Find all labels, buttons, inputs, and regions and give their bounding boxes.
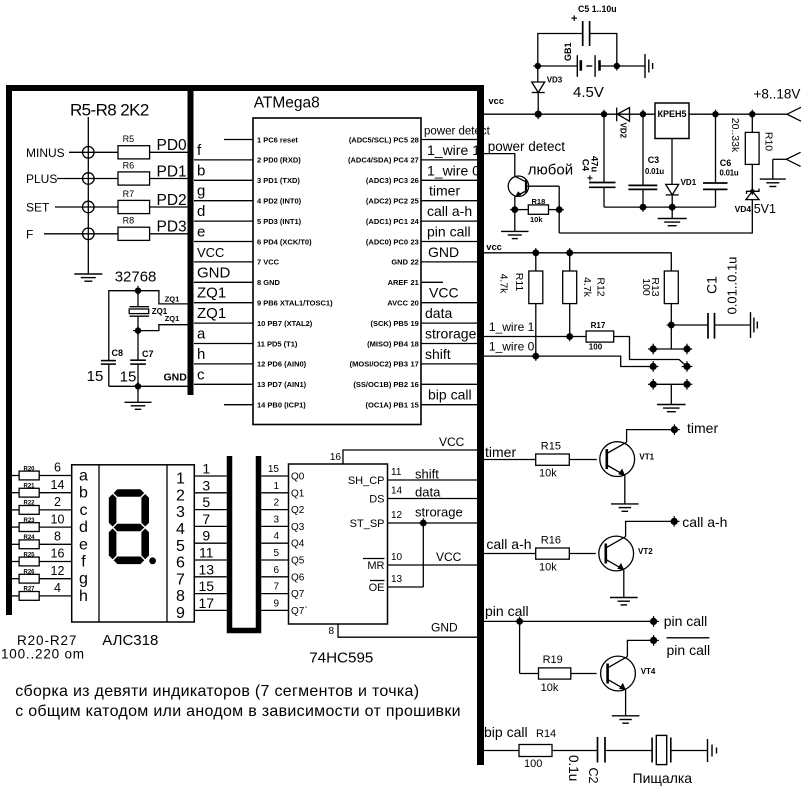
svg-text:(ADC2) PC2: (ADC2) PC2 (366, 197, 408, 206)
svg-text:4: 4 (273, 531, 279, 542)
crystal ZQ1 (137, 291, 139, 307)
svg-text:data: data (415, 485, 441, 500)
svg-text:h: h (79, 588, 88, 605)
svg-text:1 PC6 reset: 1 PC6 reset (257, 135, 298, 144)
svg-text:10k: 10k (530, 215, 543, 224)
svg-text:Q7`: Q7` (291, 605, 308, 617)
node R10 junction (748, 110, 757, 119)
svg-text:100..220 om: 100..220 om (1, 647, 85, 662)
svg-text:pin call: pin call (485, 603, 529, 619)
wire junction down to R19 (519, 621, 521, 673)
wire bus right vertical (MCU bus) (477, 85, 484, 765)
svg-text:8 GND: 8 GND (257, 278, 281, 287)
svg-text:(ADC3) PC3: (ADC3) PC3 (366, 176, 408, 185)
wire VT2 emitter to ground (623, 570, 625, 598)
svg-text:timer: timer (485, 444, 516, 460)
svg-text:15: 15 (87, 368, 104, 385)
node pin call junction (515, 617, 525, 627)
7-segment indicator ALS318 body (72, 465, 195, 622)
svg-text:32768: 32768 (115, 268, 157, 285)
svg-text:Q6: Q6 (291, 572, 305, 583)
svg-text:Q2: Q2 (291, 505, 305, 516)
svg-text:1: 1 (202, 461, 210, 477)
svg-text:0.01u: 0.01u (720, 169, 739, 178)
svg-text:1_wire 0: 1_wire 0 (489, 340, 535, 354)
svg-text:6: 6 (273, 565, 279, 576)
svg-text:8: 8 (176, 588, 185, 605)
svg-text:VT4: VT4 (641, 667, 656, 676)
svg-text:VT1: VT1 (639, 453, 654, 462)
svg-text:100: 100 (524, 758, 542, 770)
wire power ground rail (604, 206, 716, 208)
svg-text:a: a (79, 468, 88, 485)
svg-text:d: d (79, 519, 88, 536)
svg-text:C6: C6 (720, 158, 732, 168)
svg-text:b: b (79, 485, 88, 502)
svg-text:0.01..0.1u: 0.01..0.1u (725, 257, 740, 315)
svg-text:22: 22 (411, 258, 419, 267)
wire 1_wire 1 (484, 336, 586, 338)
svg-text:любой: любой (528, 162, 573, 179)
svg-text:1_wire 1: 1_wire 1 (427, 142, 480, 158)
node C4 junction (599, 110, 608, 119)
svg-text:R10: R10 (763, 132, 775, 151)
svg-text:24: 24 (411, 217, 420, 226)
svg-text:ZQ1: ZQ1 (165, 294, 180, 303)
connector input return (773, 158, 787, 160)
wire crystal left branch to C8 (109, 291, 138, 361)
ground crystal (137, 386, 139, 402)
svg-text:13: 13 (391, 574, 403, 585)
svg-text:GND: GND (164, 371, 188, 383)
ground buzzer (708, 739, 717, 762)
node battery right junction (612, 61, 621, 70)
svg-text:strorage: strorage (425, 326, 477, 342)
svg-text:(ADC4/SDA) PC4: (ADC4/SDA) PC4 (348, 156, 409, 165)
svg-text:15: 15 (120, 369, 137, 386)
svg-text:3 PD1 (TXD): 3 PD1 (TXD) (257, 176, 300, 185)
svg-text:1: 1 (273, 481, 279, 492)
svg-text:4.5V: 4.5V (573, 84, 604, 101)
svg-text:18: 18 (411, 339, 419, 348)
svg-text:0.01u: 0.01u (645, 167, 664, 176)
svg-text:bip call: bip call (484, 724, 528, 740)
svg-text:4.7k: 4.7k (498, 274, 510, 295)
node C1 junction (667, 320, 677, 330)
svg-text:12: 12 (391, 510, 403, 521)
node timer output (669, 424, 680, 435)
svg-text:15: 15 (411, 401, 419, 410)
svg-text:(ADC0) PC0: (ADC0) PC0 (366, 237, 408, 246)
svg-text:7: 7 (273, 582, 279, 593)
svg-text:VT2: VT2 (638, 547, 653, 556)
svg-text:MINUS: MINUS (26, 146, 65, 160)
node ST_SP junction (419, 518, 429, 528)
svg-text:ST_SP: ST_SP (350, 518, 385, 530)
svg-text:GND: GND (428, 244, 459, 260)
svg-text:DS: DS (369, 494, 384, 506)
svg-text:9: 9 (202, 528, 210, 544)
node crystal top junction (133, 286, 143, 296)
svg-text:20..33k: 20..33k (729, 118, 741, 153)
svg-text:OE: OE (369, 582, 385, 594)
svg-text:2 PD0 (RXD): 2 PD0 (RXD) (257, 156, 301, 165)
zener diode VD4 5V1 (746, 191, 759, 199)
node R18 right junction (554, 205, 564, 215)
svg-text:R19: R19 (543, 654, 563, 666)
svg-text:ZQ1: ZQ1 (197, 285, 226, 302)
svg-text:с общим катодом или анодом в з: с общим катодом или анодом в зависимости… (15, 703, 461, 720)
capacitor C7 (137, 331, 139, 361)
svg-text:AVCC: AVCC (387, 299, 408, 308)
svg-text:R17: R17 (591, 321, 606, 330)
svg-text:PD3: PD3 (157, 219, 187, 236)
svg-text:10 PB7 (XTAL2): 10 PB7 (XTAL2) (257, 319, 313, 328)
svg-text:13 PD7 (AIN1): 13 PD7 (AIN1) (257, 380, 307, 389)
svg-text:16: 16 (330, 452, 342, 463)
svg-text:F: F (26, 227, 33, 241)
svg-text:27: 27 (411, 156, 419, 165)
node R12 bottom junction (565, 332, 575, 342)
shift register 74HC595 body (289, 464, 388, 624)
svg-text:6: 6 (54, 461, 61, 475)
wire pin call (484, 620, 650, 622)
svg-text:Пищалка: Пищалка (633, 770, 693, 786)
wire battery to ground (617, 65, 645, 67)
svg-text:10k: 10k (541, 682, 559, 694)
svg-text:3: 3 (202, 477, 210, 493)
svg-text:1_wire 1: 1_wire 1 (489, 320, 535, 334)
svg-text:23: 23 (411, 237, 419, 246)
svg-text:20: 20 (411, 299, 419, 308)
svg-text:PLUS: PLUS (26, 172, 57, 186)
ground jumper (670, 384, 672, 404)
svg-text:2: 2 (176, 487, 185, 504)
transistor VT2 (599, 536, 634, 571)
svg-text:4: 4 (54, 581, 61, 595)
diode VD1 (666, 184, 679, 195)
svg-text:VD2: VD2 (619, 123, 628, 139)
svg-text:10k: 10k (539, 467, 557, 479)
svg-text:12: 12 (51, 564, 65, 578)
svg-text:VCC: VCC (436, 550, 462, 564)
svg-text:21: 21 (411, 278, 419, 287)
svg-text:12 PD6 (AIN0): 12 PD6 (AIN0) (257, 360, 307, 369)
svg-text:PD1: PD1 (157, 163, 187, 180)
svg-text:17: 17 (199, 595, 215, 611)
svg-text:R5: R5 (123, 134, 135, 144)
svg-text:timer: timer (429, 183, 460, 199)
svg-text:g: g (197, 183, 205, 200)
svg-text:13: 13 (199, 561, 215, 577)
svg-text:(MOSI/OC2) PB3: (MOSI/OC2) PB3 (350, 360, 408, 369)
ground power detect emitter (514, 210, 516, 232)
svg-text:h: h (197, 346, 205, 363)
wire timer to R15 (484, 459, 536, 461)
wire XTAL1 to bus (138, 291, 188, 304)
svg-text:power detect: power detect (424, 126, 491, 138)
svg-text:16: 16 (51, 547, 65, 561)
svg-text:10: 10 (51, 512, 65, 526)
transistor VT4 (601, 656, 636, 691)
svg-text:VCC: VCC (197, 245, 224, 260)
svg-text:4.7k: 4.7k (581, 277, 593, 298)
svg-text:7: 7 (176, 571, 185, 588)
svg-text:сборка из девяти индикаторов (: сборка из девяти индикаторов (7 сегменто… (15, 683, 419, 700)
svg-text:e: e (197, 224, 205, 241)
svg-text:R15: R15 (541, 441, 561, 453)
svg-text:5V1: 5V1 (754, 202, 776, 216)
wire OE to ST_SP (422, 523, 424, 587)
svg-text:PD0: PD0 (157, 137, 188, 154)
svg-text:15: 15 (199, 578, 215, 594)
svg-text:11: 11 (199, 545, 214, 561)
svg-text:a: a (197, 326, 206, 343)
svg-text:Q3: Q3 (291, 522, 305, 533)
svg-text:1_wire 0: 1_wire 0 (427, 162, 480, 178)
ground VT4 (612, 716, 640, 723)
svg-text:28: 28 (411, 135, 419, 144)
svg-text:6 PD4 (XCK/T0): 6 PD4 (XCK/T0) (257, 237, 312, 246)
ground VT2 (610, 598, 638, 605)
svg-text:4 PD2 (INT0): 4 PD2 (INT0) (257, 197, 302, 206)
svg-text:6: 6 (176, 555, 185, 572)
svg-text:Q7: Q7 (291, 589, 305, 600)
svg-text:7 VCC: 7 VCC (257, 258, 280, 267)
svg-text:8: 8 (328, 626, 334, 637)
diode VD2 (616, 108, 618, 122)
node R12 top junction (565, 248, 575, 258)
svg-text:shift: shift (415, 467, 439, 482)
wire C5 left to battery (538, 34, 583, 67)
node battery left junction (533, 61, 542, 70)
svg-text:call a-h: call a-h (682, 514, 727, 530)
svg-text:5: 5 (273, 548, 279, 559)
svg-text:data: data (425, 305, 452, 321)
svg-text:vcc: vcc (489, 96, 505, 106)
svg-text:timer: timer (687, 420, 718, 436)
svg-text:5: 5 (176, 538, 185, 555)
svg-text:C1: C1 (704, 276, 720, 294)
svg-text:5: 5 (202, 494, 210, 510)
wire VT2 collector to call a-h out (626, 521, 671, 536)
svg-text:VCC: VCC (439, 435, 465, 449)
svg-text:2: 2 (273, 498, 279, 509)
node R18 left junction (510, 205, 520, 215)
svg-text:VD3: VD3 (547, 76, 563, 85)
svg-text:47u: 47u (589, 156, 600, 173)
wire VT4 emitter to ground (625, 690, 627, 716)
svg-text:16: 16 (411, 380, 419, 389)
wire keypad common bus vertical (87, 117, 89, 274)
jumper row 2 (open) (648, 361, 659, 372)
decimal point (149, 557, 156, 564)
node R11 top junction (531, 248, 541, 258)
svg-text:pin call: pin call (667, 642, 711, 658)
svg-text:R7: R7 (123, 189, 135, 199)
svg-text:C2: C2 (586, 768, 600, 784)
svg-text:AREF: AREF (388, 278, 409, 287)
svg-text:9: 9 (273, 598, 279, 609)
svg-text:Q1: Q1 (291, 488, 305, 499)
node call a-h output (669, 516, 680, 527)
svg-text:SET: SET (26, 201, 50, 215)
wire crystal gnd net to bus (109, 385, 188, 387)
wire KREN5 ground pin (671, 139, 673, 185)
wire call a-h to R16 (484, 553, 536, 555)
svg-text:Q0: Q0 (291, 472, 305, 483)
svg-text:call a-h: call a-h (486, 536, 531, 552)
svg-text:15: 15 (268, 464, 280, 475)
transistor VT1 (600, 442, 635, 477)
svg-text:2: 2 (54, 495, 61, 509)
svg-text:1: 1 (176, 471, 185, 488)
jumper row 1 (653, 348, 687, 350)
svg-text:GND: GND (391, 258, 408, 267)
svg-text:+: + (571, 13, 577, 25)
svg-text:pin call: pin call (427, 224, 471, 240)
svg-text:strorage: strorage (415, 505, 463, 520)
svg-text:f: f (81, 554, 86, 571)
net label pin call inverted (667, 637, 710, 639)
svg-text:R16: R16 (541, 535, 561, 547)
svg-text:0.1u: 0.1u (566, 755, 581, 781)
svg-text:g: g (79, 571, 88, 588)
svg-text:VCC: VCC (429, 285, 459, 301)
svg-text:C7: C7 (142, 349, 154, 359)
wire R17 to jumper (614, 337, 687, 367)
svg-text:(MISO) PB4: (MISO) PB4 (367, 339, 409, 348)
svg-text:R6: R6 (123, 160, 135, 170)
svg-text:shift: shift (425, 346, 451, 362)
svg-text:9: 9 (176, 605, 185, 622)
wire buzzer to ground (671, 750, 708, 752)
svg-text:74HC595: 74HC595 (309, 650, 373, 667)
svg-text:10: 10 (391, 552, 403, 563)
wire bus mid vertical (keypad/display bus) (188, 85, 194, 395)
node crystal gnd junction (133, 381, 143, 391)
svg-text:c: c (80, 502, 88, 519)
svg-text:26: 26 (411, 176, 419, 185)
svg-text:PD2: PD2 (157, 192, 187, 209)
svg-text:call a-h: call a-h (427, 203, 472, 219)
svg-text:power detect: power detect (488, 139, 566, 154)
wire C5 right to battery (590, 34, 617, 67)
svg-text:8: 8 (54, 530, 61, 544)
wire base to VD4 rail (558, 186, 560, 233)
svg-text:3: 3 (176, 504, 185, 521)
node VCC rail VD3 junction (533, 109, 543, 119)
ground battery (645, 54, 653, 78)
wire bus frame left border (6, 85, 12, 615)
svg-text:АЛС318: АЛС318 (102, 632, 158, 649)
svg-text:pin call: pin call (664, 613, 708, 629)
wire VT1 emitter to ground (624, 475, 626, 504)
svg-text:c: c (197, 366, 205, 383)
svg-text:GB1: GB1 (563, 42, 573, 61)
node C6 junction (711, 110, 720, 119)
node C3 gnd junction (638, 202, 648, 212)
svg-text:VD1: VD1 (681, 178, 697, 187)
svg-text:e: e (79, 536, 88, 553)
svg-text:17: 17 (411, 360, 419, 369)
svg-text:Q4: Q4 (291, 539, 305, 550)
wire 1_wire 0 (484, 356, 649, 366)
wire VT1 collector to timer out (627, 430, 671, 443)
svg-text:КРЕН5: КРЕН5 (657, 109, 686, 119)
ground power section (671, 207, 673, 218)
svg-text:MR: MR (367, 560, 384, 572)
svg-text:(ADC1) PC1: (ADC1) PC1 (366, 217, 408, 226)
node C3 junction (638, 110, 647, 119)
ground input return (772, 159, 774, 179)
svg-text:b: b (197, 162, 205, 179)
wire VD4 to power detect base (559, 200, 752, 233)
svg-text:R8: R8 (123, 216, 135, 226)
wire bus U-shaped display-to-595 bus (230, 456, 259, 631)
svg-text:C5 1..10u: C5 1..10u (578, 4, 617, 14)
svg-text:19: 19 (411, 319, 419, 328)
svg-text:Q5: Q5 (291, 556, 305, 567)
svg-text:(SS/OC1B) PB2: (SS/OC1B) PB2 (353, 380, 408, 389)
svg-text:ATMega8: ATMega8 (254, 95, 320, 112)
jumper row 3 (653, 383, 687, 385)
svg-text:3: 3 (273, 514, 279, 525)
svg-text:25: 25 (411, 197, 419, 206)
svg-text:vcc: vcc (486, 242, 502, 252)
wire VT4 collector to pin call inverted out (627, 640, 650, 656)
svg-text:ZQ1: ZQ1 (197, 305, 226, 322)
ground VT1 (611, 504, 639, 511)
node crystal bottom junction (133, 326, 143, 336)
svg-text:d: d (197, 203, 205, 220)
ground keypad bus (74, 274, 102, 281)
svg-text:bip call: bip call (428, 387, 472, 403)
svg-text:9 PB6 XTAL1/TOSC1): 9 PB6 XTAL1/TOSC1) (257, 299, 333, 308)
svg-text:11 PD5 (T1): 11 PD5 (T1) (257, 339, 298, 348)
svg-text:R11: R11 (513, 273, 525, 292)
wire power detect from bus (484, 154, 515, 176)
node pin call output (648, 616, 659, 627)
node VD1 gnd junction (667, 202, 677, 212)
buzzer (piezo) Pishchalka (651, 738, 653, 763)
svg-text:14: 14 (51, 478, 65, 492)
svg-text:11: 11 (391, 467, 402, 478)
wire XTAL2 to bus (138, 325, 188, 331)
svg-text:R14: R14 (536, 728, 556, 740)
svg-text:4: 4 (176, 521, 185, 538)
svg-text:+8..18V: +8..18V (754, 87, 801, 102)
svg-text:100: 100 (640, 278, 652, 296)
svg-text:100: 100 (589, 342, 603, 351)
svg-text:R12: R12 (595, 277, 607, 296)
svg-text:C3: C3 (648, 155, 660, 165)
svg-text:10k: 10k (539, 561, 557, 573)
ground C1 (751, 312, 758, 338)
svg-text:R5-R8 2K2: R5-R8 2K2 (70, 101, 149, 120)
svg-text:GND: GND (431, 621, 458, 635)
node R11 bottom junction (531, 351, 541, 361)
svg-text:(OC1A) PB1: (OC1A) PB1 (365, 401, 408, 410)
svg-text:SH_CP: SH_CP (348, 475, 385, 487)
svg-text:GND: GND (197, 264, 231, 281)
svg-text:(ADC5/SCL) PC5: (ADC5/SCL) PC5 (349, 135, 408, 144)
wire bus frame top (6, 85, 484, 91)
svg-text:5 PD3 (INT1): 5 PD3 (INT1) (257, 217, 302, 226)
svg-text:(SCK) PB5: (SCK) PB5 (370, 319, 408, 328)
wire mid VCC rail (484, 253, 671, 271)
svg-text:7: 7 (202, 511, 210, 527)
